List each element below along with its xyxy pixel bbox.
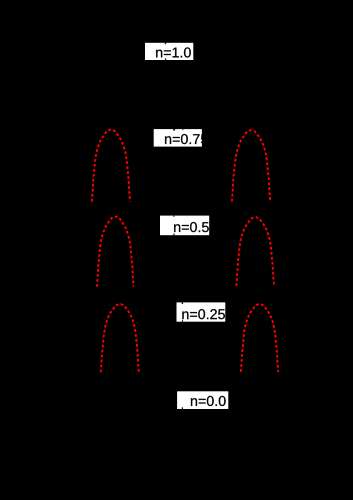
arc pulse left n=0.75 [92, 130, 130, 202]
notch on bottom edge of label n=0.25 [182, 320, 183, 322]
label n=0.5 text "n=0.5" [174, 222, 209, 232]
label n=0.0 text "n=0.0" [191, 396, 226, 406]
label n=0.25 text "n=0.25" [182, 309, 225, 319]
label n=0.25 box [177, 302, 226, 321]
label n=0.5 box [160, 216, 209, 236]
notch on top edge of label n=0.75 (right) [181, 129, 184, 130]
red dot below label n=0.0 [182, 409, 183, 410]
label n=0.0 box [177, 391, 228, 409]
label n=1.0 box [145, 43, 193, 60]
notch on bottom edge of label n=0.0 [182, 407, 183, 409]
label n=0.75 box [154, 129, 202, 147]
notch on top edge of label n=0.25 [182, 302, 183, 304]
arc pulse left n=0.5 [97, 217, 134, 287]
notch on top edge of label n=0.5 [173, 216, 174, 218]
notch on top edge of label n=0.75 (left) [173, 129, 175, 131]
notch above label n=1.0 [165, 43, 166, 45]
arc pulse left n=0.25 [101, 304, 139, 372]
arc pulse right n=0.5 [236, 217, 274, 286]
arc pulse right n=0.25 [241, 304, 279, 372]
label n=0.75 text "n=0.75" [165, 134, 208, 144]
notch below label n=1.0 (bottom edge) [165, 58, 166, 60]
arc pulse right n=0.75 [232, 130, 270, 201]
label n=1.0 text "n=1.0" [156, 47, 191, 57]
notch on bottom edge of label n=0.5 [173, 234, 174, 236]
